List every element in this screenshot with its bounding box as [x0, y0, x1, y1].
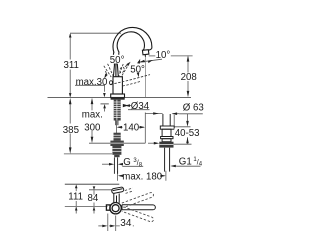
svg-text:Ø34: Ø34 [131, 101, 150, 112]
svg-text:111: 111 [68, 192, 83, 203]
svg-text:max.: max. [82, 109, 103, 120]
svg-text:10°: 10° [156, 50, 171, 61]
svg-text:140: 140 [123, 123, 140, 134]
svg-text:40-53: 40-53 [175, 128, 200, 139]
svg-text:50°: 50° [130, 64, 145, 75]
svg-text:84: 84 [88, 193, 99, 204]
svg-text:385: 385 [63, 125, 79, 136]
svg-text:34: 34 [120, 218, 132, 229]
svg-text:Ø 63: Ø 63 [183, 103, 204, 114]
svg-text:50°: 50° [110, 55, 125, 66]
svg-text:max. 180: max. 180 [122, 171, 162, 182]
svg-text:max.30: max.30 [76, 77, 108, 88]
svg-text:311: 311 [64, 60, 79, 71]
svg-text:G1 1/4: G1 1/4 [179, 156, 203, 167]
svg-text:300: 300 [84, 122, 101, 133]
svg-text:G 3/8: G 3/8 [123, 157, 143, 169]
svg-text:208: 208 [181, 72, 197, 83]
